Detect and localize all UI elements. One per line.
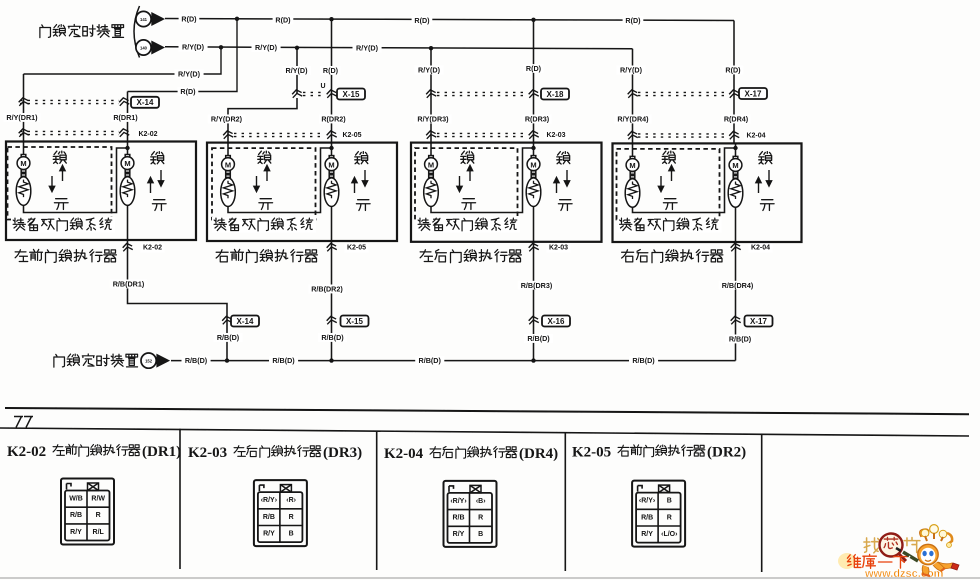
up arrow (right half) block 1 xyxy=(148,178,153,194)
label lock (dashed half) block 1 xyxy=(53,151,66,163)
wire: R(DR4) drop (bus corner) xyxy=(733,21,735,144)
connector box X-14 (top) xyxy=(131,97,159,108)
svg-text:M: M xyxy=(428,160,434,169)
label R(D) xyxy=(273,15,294,24)
svg-text:R(D): R(D) xyxy=(181,15,197,24)
chevron X-15 on R/Y(D) xyxy=(292,89,303,98)
connector box X-14 (bottom) xyxy=(231,316,259,327)
wire loop motor-to-motor, block 2 xyxy=(228,148,332,213)
svg-text:R/B(D): R/B(D) xyxy=(527,334,550,343)
junction on R/B(D) bus 2 xyxy=(329,358,333,362)
wire R/B out of block 2 xyxy=(331,206,333,241)
label lock (dashed half) block 4 xyxy=(662,151,675,163)
chevron X-18 on R(DR3) xyxy=(528,89,539,98)
svg-text:R/B(D): R/B(D) xyxy=(185,356,208,365)
svg-text:R/Y(D): R/Y(D) xyxy=(356,44,379,53)
label R(D) xyxy=(412,16,433,25)
svg-text:R/Y(D): R/Y(D) xyxy=(182,43,205,52)
label double-door-lock system, block 4 xyxy=(620,218,719,231)
connector X-14 separation line (top) xyxy=(20,100,119,103)
chevron X-15 on R(D) xyxy=(326,89,337,98)
label R/B(D) below X-15 xyxy=(318,333,347,342)
label unlock (right half) block 2 xyxy=(356,200,370,211)
chevron K2-02 below block 1 xyxy=(122,243,133,252)
wire loop motor-to-motor, block 3 xyxy=(431,148,534,213)
wire R into unlock motor, block 3 xyxy=(533,143,535,156)
connector K2-02 separation line (top) xyxy=(20,131,119,134)
label K2-05 below block 2 xyxy=(344,244,368,253)
up arrow (right half) block 4 xyxy=(756,178,761,194)
chevron X-18 on R/Y(DR3) xyxy=(426,89,437,98)
label unlock (dashed half) block 1 xyxy=(54,199,68,210)
svg-text:‹R/Y›: ‹R/Y› xyxy=(450,498,467,505)
junction on R wire inside block 2 xyxy=(329,146,333,150)
lock motor M (inside dashed), block 1 xyxy=(16,155,31,206)
svg-text:R/Y: R/Y xyxy=(263,530,275,537)
svg-text:R/B(D): R/B(D) xyxy=(729,335,752,344)
wire into lock motor, block 3 xyxy=(430,143,432,156)
label: door-lock timing unit (bottom) xyxy=(54,354,138,367)
label R/B(D) bus 3 xyxy=(415,356,444,365)
label unlock (dashed half) block 4 xyxy=(663,199,677,210)
svg-text:R(DR3): R(DR3) xyxy=(525,115,550,124)
watermark char zhao xyxy=(864,538,880,553)
connector box X-15 (top) xyxy=(337,89,365,100)
table divider 4 xyxy=(761,434,763,572)
svg-text:M: M xyxy=(530,160,536,169)
label R/B(DR1) xyxy=(110,280,147,289)
junction R(D) bus to DR2 xyxy=(329,17,333,21)
svg-text:R/W: R/W xyxy=(91,496,105,503)
actuator block 1: K2-02 outer box xyxy=(6,142,196,241)
connector box X-18 (top) xyxy=(541,89,569,100)
label R/B(D) bus 1 xyxy=(182,356,211,365)
svg-text:X-18: X-18 xyxy=(547,90,564,99)
separator line upper xyxy=(5,408,969,414)
connector X-15 separation dashes xyxy=(303,92,325,95)
svg-text:R/B: R/B xyxy=(70,512,82,519)
connector pinout K2-05 (DR2) xyxy=(632,481,685,547)
svg-text:(DR1): (DR1) xyxy=(142,444,181,460)
label double-door-lock system, block 1 xyxy=(13,218,112,231)
connector chevron X-14 on R/Y(DR1) xyxy=(18,97,29,106)
svg-text:R/Y(DR3): R/Y(DR3) xyxy=(417,115,449,124)
connector box X-16 (bottom) xyxy=(542,316,570,327)
chevron K2-03 on R/Y(DR3) xyxy=(426,130,437,139)
label unlock (right half) block 1 xyxy=(152,200,166,211)
chevron K2-05 below block 2 xyxy=(326,243,337,252)
connector X-17 separation dashes xyxy=(638,92,728,95)
junction on R/Y(D) bus xyxy=(219,45,223,49)
label U xyxy=(320,83,325,90)
label lock (right half) block 4 xyxy=(759,152,772,164)
junction R/Y bus to DR3 xyxy=(429,46,433,50)
table divider 1 xyxy=(179,429,181,569)
label R(D) xyxy=(179,15,200,24)
wire loop motor-to-motor, block 4 xyxy=(633,148,736,213)
label K2-05 xyxy=(340,131,364,140)
connector K2-05 separation line xyxy=(234,133,325,136)
svg-text:R/L: R/L xyxy=(93,529,105,536)
dashed double-lock boundary block 4 xyxy=(617,149,720,220)
chevron X-16 bottom xyxy=(528,316,539,325)
svg-text:M: M xyxy=(225,160,231,169)
label unlock (dashed half) block 2 xyxy=(259,199,273,210)
connector K2-04 separation line xyxy=(638,134,728,137)
wire: R/B(DR2) from RF actuator xyxy=(331,241,333,361)
unlock motor M, block 4 xyxy=(728,156,743,207)
junction on R/B(D) bus 3 xyxy=(531,358,535,362)
wire: R/Y(DR1) drop xyxy=(23,74,25,142)
label R(DR3) xyxy=(523,115,552,124)
svg-text:R/B(D): R/B(D) xyxy=(632,356,655,365)
dashed double-lock boundary block 2 xyxy=(212,148,316,219)
wire into lock motor, block 4 xyxy=(632,143,634,156)
label R/B(D) below X-16 xyxy=(524,334,553,343)
label R/B(DR4) xyxy=(719,281,756,290)
svg-text:X-15: X-15 xyxy=(343,90,360,99)
svg-text:X-14: X-14 xyxy=(237,317,254,326)
svg-text:R/B(D): R/B(D) xyxy=(272,356,295,365)
svg-text:M: M xyxy=(328,160,334,169)
svg-text:R: R xyxy=(667,514,672,521)
svg-text:R/B(DR2): R/B(DR2) xyxy=(311,285,343,294)
svg-text:R(D): R(D) xyxy=(323,66,339,75)
wire R/B out of block 4 xyxy=(735,207,737,242)
svg-text:R/Y(DR4): R/Y(DR4) xyxy=(617,115,649,124)
chevron K2-04 below block 4 xyxy=(730,243,741,252)
label R(D) feeder xyxy=(178,87,199,96)
handwritten TT mark xyxy=(14,417,33,428)
label R/Y(D) xyxy=(252,43,281,52)
svg-text:R(D): R(D) xyxy=(275,15,291,24)
chevron K2-04 on R(DR4) xyxy=(729,131,740,140)
label R(D) DR4 xyxy=(723,66,744,75)
actuator block 3: K2-03 outer box xyxy=(411,143,602,242)
label R/Y(DR3) xyxy=(414,115,451,124)
svg-text:R/Y(D): R/Y(D) xyxy=(620,66,643,75)
svg-text:R: R xyxy=(96,512,101,519)
label R/Y(D) DR2 xyxy=(282,66,311,75)
lock motor M (inside dashed), block 2 xyxy=(221,156,236,207)
connector box X-15 (bottom) xyxy=(341,316,369,327)
junction on R wire inside block 4 xyxy=(733,146,737,150)
label R/Y(DR2) xyxy=(208,115,245,124)
label unlock (right half) block 3 xyxy=(558,200,572,211)
wire R into unlock motor, block 4 xyxy=(735,143,737,156)
actuator block 2: K2-05 outer box xyxy=(207,143,397,241)
wire: R/Y(D) bus xyxy=(165,47,633,49)
label R(DR1) xyxy=(111,113,140,122)
unlock motor M, block 2 xyxy=(324,156,339,207)
svg-text:(DR3): (DR3) xyxy=(323,445,362,461)
watermark char pian xyxy=(904,538,920,553)
label R/Y(DR4) xyxy=(614,115,651,124)
wire into lock motor, block 1 xyxy=(23,142,25,155)
connector box X-17 (bottom) xyxy=(745,316,773,327)
svg-text:K2-03: K2-03 xyxy=(546,132,565,139)
label R(D) xyxy=(623,16,644,25)
wire loop motor-to-motor, block 1 xyxy=(24,148,128,213)
chevron X-17 on R(DR4) xyxy=(729,89,740,98)
connector pinout K2-02 (DR1) xyxy=(61,479,114,545)
block 3 name label xyxy=(420,250,521,263)
svg-text:B: B xyxy=(667,498,672,505)
label R/Y(D) DR4 xyxy=(617,66,646,75)
label K2-03 below block 3 xyxy=(546,244,570,253)
wire: R(DR1) drop xyxy=(127,92,129,142)
label lock (dashed half) block 2 xyxy=(258,151,271,163)
unlock motor M, block 3 xyxy=(526,156,541,207)
up arrow (right half) block 3 xyxy=(554,178,559,194)
svg-text:R/B(D): R/B(D) xyxy=(321,333,344,342)
svg-text:R/Y(D): R/Y(D) xyxy=(286,66,309,75)
wire into lock motor, block 2 xyxy=(227,143,229,156)
table divider 3 xyxy=(564,432,566,571)
svg-text:R/Y(D): R/Y(D) xyxy=(255,43,278,52)
bracket for timing unit pins xyxy=(134,6,140,58)
dashed double-lock boundary block 3 xyxy=(415,148,518,219)
label lock (right half) block 2 xyxy=(355,152,368,164)
junction on R wire inside block 3 xyxy=(531,146,535,150)
svg-text:R/Y(D): R/Y(D) xyxy=(418,66,441,75)
up arrow (dashed half) block 1 xyxy=(60,166,65,182)
svg-text:K2-04: K2-04 xyxy=(384,446,424,462)
dashed double-lock boundary block 1 xyxy=(8,147,112,220)
svg-text:R(D): R(D) xyxy=(526,64,542,73)
label unlock (right half) block 4 xyxy=(760,200,774,211)
chevron K2-05 on R/Y(DR2) xyxy=(223,130,234,139)
svg-text:R/B(DR1): R/B(DR1) xyxy=(113,280,145,289)
pin 141 of timing unit xyxy=(136,11,165,26)
svg-text:(DR4): (DR4) xyxy=(519,446,558,462)
svg-text:R/B: R/B xyxy=(263,514,275,521)
svg-text:X-15: X-15 xyxy=(346,317,363,326)
label K2-02 below block 1 xyxy=(140,244,164,253)
connector X-18 separation dashes xyxy=(437,92,527,95)
label R(DR4) xyxy=(722,115,751,124)
label R/Y(D) xyxy=(353,44,382,53)
chevron K2-03 on R(DR3) xyxy=(528,130,539,139)
chevron K2-03 below block 3 xyxy=(528,243,539,252)
wire: R/B(D) return bus xyxy=(171,360,736,362)
wire: R/B(DR3) from LR actuator xyxy=(533,242,535,361)
svg-text:R(DR2): R(DR2) xyxy=(321,115,346,124)
chevron K2-05 on R(DR2) xyxy=(326,130,337,139)
svg-text:R/Y(DR1): R/Y(DR1) xyxy=(6,113,38,122)
label R/B(DR2) xyxy=(308,285,345,294)
wire R into unlock motor, block 2 xyxy=(331,143,333,156)
down arrow (right half) block 1 xyxy=(158,170,163,186)
watermark magnifier with chip char xyxy=(880,534,907,562)
svg-text:‹L/O›: ‹L/O› xyxy=(661,531,678,538)
label R/Y(DR1) xyxy=(3,113,40,122)
svg-text:‹B›: ‹B› xyxy=(476,498,486,505)
svg-text:M: M xyxy=(20,159,26,168)
svg-text:R(D): R(D) xyxy=(725,66,741,75)
svg-text:K2-05: K2-05 xyxy=(572,445,611,461)
svg-text:M: M xyxy=(732,161,738,170)
connector box X-17 (top) xyxy=(739,88,767,99)
wire: R(D) bus xyxy=(165,19,734,21)
separator line lower xyxy=(0,428,969,436)
label double-door-lock system, block 3 xyxy=(418,218,517,231)
label R/B(D) bus 4 xyxy=(629,356,658,365)
svg-text:K2-04: K2-04 xyxy=(746,133,765,140)
label K2-04 below block 4 xyxy=(748,244,772,253)
connector K2-03 separation line xyxy=(437,133,527,136)
connector pinout K2-03 (DR3) xyxy=(254,480,307,546)
junction on R/B(D) bus xyxy=(225,358,229,362)
wire: R(D) feeder to LF actuator xyxy=(128,19,238,92)
svg-text:R(D): R(D) xyxy=(414,16,430,25)
svg-text:140: 140 xyxy=(140,46,148,51)
up arrow (dashed half) block 2 xyxy=(264,166,269,182)
svg-text:R: R xyxy=(289,514,294,521)
wire: R/B(DR4) from RR actuator xyxy=(735,242,737,361)
label R(D) DR2 xyxy=(320,66,341,75)
svg-text:K2-05: K2-05 xyxy=(342,132,361,139)
label R/Y(D) DR3 xyxy=(415,66,444,75)
svg-text:www.dzsc.com: www.dzsc.com xyxy=(864,568,944,580)
wire: R/Y(D) feeder to LF actuator xyxy=(24,47,222,74)
chevron X-14 bottom xyxy=(222,316,233,325)
svg-text:141: 141 xyxy=(140,17,148,22)
lock motor M (inside dashed), block 3 xyxy=(424,156,439,207)
svg-text:X-14: X-14 xyxy=(137,98,154,107)
down arrow (dashed half) block 2 xyxy=(254,176,259,192)
down arrow (dashed half) block 3 xyxy=(457,176,462,192)
junction R(D) bus to DR3 xyxy=(531,18,535,22)
svg-text:R/Y: R/Y xyxy=(453,531,465,538)
wire R into unlock motor, block 1 xyxy=(127,142,129,155)
svg-text:K2-02: K2-02 xyxy=(143,245,162,252)
label K2-04 xyxy=(744,132,768,141)
label double-door-lock system, block 2 xyxy=(214,218,313,231)
chevron K2-04 on R/Y(DR4) xyxy=(627,131,638,140)
label R/B(D) bus 2 xyxy=(269,356,298,365)
wire: R/Y(DR4) drop (bus corner) xyxy=(632,49,634,144)
wire R/Y(DR2) into block xyxy=(227,135,229,143)
svg-text:M: M xyxy=(124,159,130,168)
wire: R/B(DR1) from LF actuator xyxy=(128,240,228,361)
svg-text:K2-03: K2-03 xyxy=(549,245,568,252)
chevron X-15 bottom xyxy=(326,316,337,325)
label unlock (dashed half) block 3 xyxy=(462,199,476,210)
svg-text:X-17: X-17 xyxy=(745,89,762,98)
svg-text:‹R/Y›: ‹R/Y› xyxy=(261,497,278,504)
label R/B(D) below X-14 xyxy=(214,333,243,342)
svg-text:K2-02: K2-02 xyxy=(7,444,46,460)
wire R/B out of block 3 xyxy=(533,206,535,242)
connector chevron X-14 on R(DR1) xyxy=(119,97,130,106)
svg-text:R/B(DR3): R/B(DR3) xyxy=(521,281,553,290)
label: door-lock timing unit (top) xyxy=(40,24,124,37)
svg-text:K2-03: K2-03 xyxy=(188,445,227,461)
svg-text:K2-02: K2-02 xyxy=(138,131,157,138)
label K2-03 xyxy=(544,131,568,140)
svg-text:B: B xyxy=(478,531,483,538)
down arrow (dashed half) block 4 xyxy=(658,176,663,192)
svg-text:R/Y: R/Y xyxy=(70,529,82,536)
svg-text:R/B(D): R/B(D) xyxy=(217,333,240,342)
svg-text:‹R›: ‹R› xyxy=(286,497,296,504)
chevron X-17 bottom xyxy=(730,316,741,325)
svg-text:M: M xyxy=(629,161,635,170)
wire: R/Y(D) drop DR2 upper xyxy=(296,48,298,94)
connector pinout K2-04 (DR4) xyxy=(444,481,497,547)
svg-text:X-17: X-17 xyxy=(750,317,767,326)
unlock motor M, block 1 xyxy=(120,155,135,206)
svg-text:W/B: W/B xyxy=(69,496,83,503)
svg-text:R/Y(DR2): R/Y(DR2) xyxy=(211,115,243,124)
label R/Y(D) xyxy=(179,43,208,52)
down arrow (dashed half) block 1 xyxy=(49,176,54,192)
label R/B(DR3) xyxy=(518,281,555,290)
up arrow (dashed half) block 4 xyxy=(669,166,674,182)
svg-text:B: B xyxy=(289,530,294,537)
down arrow (right half) block 3 xyxy=(564,170,569,186)
svg-text:R/B(DR4): R/B(DR4) xyxy=(722,281,754,290)
up arrow (dashed half) block 3 xyxy=(467,166,472,182)
svg-text:(DR2): (DR2) xyxy=(707,445,746,461)
svg-text:‹R/Y›: ‹R/Y› xyxy=(639,498,656,505)
chevron K2-02 on R/Y(DR1) xyxy=(18,128,29,137)
watermark mascot xyxy=(896,525,959,576)
label K2-02 xyxy=(136,130,160,139)
junction R/Y bus to DR2 xyxy=(295,46,299,50)
watermark: dzsc.com logo xyxy=(838,553,856,569)
svg-text:X-16: X-16 xyxy=(548,317,565,326)
wire: R(DR3) drop xyxy=(533,20,535,143)
svg-text:U: U xyxy=(320,83,325,90)
watermark text weiku-yixia xyxy=(847,554,907,568)
up arrow (right half) block 2 xyxy=(352,178,357,194)
actuator block 4: K2-04 outer box xyxy=(613,143,802,242)
svg-text:R(DR1): R(DR1) xyxy=(113,113,138,122)
wire: R(DR2) drop xyxy=(331,19,333,142)
svg-text:R/Y(D): R/Y(D) xyxy=(178,70,201,79)
block 1 name label xyxy=(15,249,116,262)
junction on R(D) bus xyxy=(235,17,239,21)
svg-text:R/B: R/B xyxy=(641,514,653,521)
pin 152 of timing unit xyxy=(141,353,170,368)
junction on R wire inside block 1 xyxy=(125,146,129,150)
label R(D) DR3 xyxy=(523,64,544,73)
wire R/B out of block 1 xyxy=(127,205,129,240)
wire: R/Y(DR3) drop xyxy=(430,48,432,142)
block 2 name label xyxy=(216,249,317,262)
label lock (right half) block 3 xyxy=(557,152,570,164)
down arrow (right half) block 4 xyxy=(766,170,771,186)
label lock (dashed half) block 3 xyxy=(461,151,474,163)
table divider 2 xyxy=(376,431,378,571)
svg-text:R(DR4): R(DR4) xyxy=(724,115,749,124)
label R(DR2) xyxy=(319,115,348,124)
faint page bottom edge xyxy=(0,577,980,579)
pin 140 of timing unit xyxy=(136,40,165,55)
svg-text:R/Y: R/Y xyxy=(641,531,653,538)
svg-text:R(D): R(D) xyxy=(180,87,196,96)
svg-text:R/B: R/B xyxy=(452,515,464,522)
svg-text:K2-05: K2-05 xyxy=(347,245,366,252)
chevron X-17 on R/Y(DR4) xyxy=(627,89,638,98)
chevron K2-02 on R(DR1) xyxy=(119,128,130,137)
svg-text:R: R xyxy=(478,515,483,522)
label R/B(D) below X-17 xyxy=(726,335,755,344)
svg-text:R(D): R(D) xyxy=(625,16,641,25)
svg-text:R/B(D): R/B(D) xyxy=(419,356,442,365)
